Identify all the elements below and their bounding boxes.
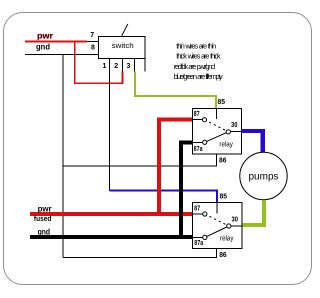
svg-text:thick wires are thick: thick wires are thick — [176, 52, 221, 61]
switch pin dividers 1-2-3 — [110, 59, 146, 72]
wire gnd branch to relay K2 pin 86 — [63, 249, 217, 258]
wire fill (thin green) switch pin 3 to relay K1 pin 85 — [135, 72, 216, 109]
svg-text:3: 3 — [126, 63, 130, 70]
svg-text:gnd: gnd — [36, 42, 50, 52]
svg-text:pwr: pwr — [37, 31, 54, 41]
svg-text:1: 1 — [102, 63, 106, 70]
note text — [174, 41, 223, 81]
relay K2 pin 87a stub — [193, 237, 205, 239]
relay K1 pin 85 stub (internal) — [216, 109, 218, 120]
wire pwr fused (thick red) — [30, 212, 193, 216]
switch lever — [122, 24, 128, 36]
relay K1 pin 30 stub — [228, 131, 241, 133]
svg-text:thin wires are thin: thin wires are thin — [176, 41, 216, 50]
svg-text:blue/green are fill/empty: blue/green are fill/empty — [174, 72, 223, 81]
svg-text:30: 30 — [232, 217, 239, 224]
wire gnd trunk down — [62, 55, 64, 258]
wire empty (thick green) relay K2 pin 30 to pumps — [242, 200, 264, 225]
svg-text:86: 86 — [219, 158, 227, 165]
svg-text:85: 85 — [218, 99, 226, 106]
svg-text:7: 7 — [90, 32, 94, 39]
svg-text:30: 30 — [231, 122, 238, 129]
wire gnd branch (thick black) to relay K1 pin 87a — [181, 142, 193, 239]
svg-text:fused: fused — [34, 214, 52, 223]
svg-text:red/blk are pwr/gnd: red/blk are pwr/gnd — [174, 62, 215, 71]
relay K1 coil dashed 87-30 — [205, 120, 229, 132]
wire gnd branch to relay K1 pin 86 — [63, 154, 217, 166]
svg-text:85: 85 — [220, 194, 228, 201]
relay K1 pin 87a stub — [193, 141, 205, 143]
relay K2 armature 30-87a — [205, 226, 229, 237]
wire pwr input to switch pin 7 — [25, 41, 99, 43]
svg-text:87a: 87a — [194, 146, 203, 153]
svg-text:pwr: pwr — [38, 205, 52, 214]
svg-text:pumps: pumps — [249, 172, 279, 183]
pump motor M1 — [240, 152, 287, 199]
wire switch pin 1 down — [109, 72, 111, 191]
relay K2 — [193, 203, 243, 249]
wire pwr branch to switch pin 2 — [75, 42, 123, 84]
svg-text:2: 2 — [114, 63, 118, 70]
svg-text:86: 86 — [219, 252, 227, 259]
svg-text:relay: relay — [219, 141, 233, 148]
wire gnd (thick black) — [30, 235, 193, 239]
svg-text:87: 87 — [194, 206, 200, 213]
svg-text:8: 8 — [91, 45, 95, 52]
relay K1 terminal 87 — [202, 118, 206, 122]
relay K2 coil dashed 87-30 — [205, 214, 229, 226]
svg-text:87: 87 — [194, 111, 200, 118]
relay K2 terminal 30 — [227, 224, 231, 228]
relay K1 — [193, 109, 242, 155]
relay K2 terminal 87 — [203, 212, 207, 216]
relay K1 terminal 30 — [226, 130, 230, 134]
relay K2 terminal 87a — [203, 235, 207, 239]
switch S1 — [99, 37, 146, 59]
relay K2 pin 30 stub — [229, 225, 242, 227]
svg-text:relay: relay — [220, 236, 234, 243]
relay K2 pin 85 stub (internal) — [216, 203, 218, 214]
wire fill (thick blue) relay K1 pin 30 to pumps — [242, 131, 263, 153]
wire gnd input to switch pin 8 — [25, 54, 99, 56]
wire pwr branch (thick red) to relay K1 pin 87 — [159, 120, 193, 216]
relay K1 pin 87 stub — [193, 119, 203, 121]
wire empty (thin blue) switch pin 1 to relay K2 pin 85 — [110, 191, 218, 203]
relay K1 armature 30-87a — [205, 132, 229, 143]
svg-text:switch: switch — [112, 41, 134, 50]
svg-text:87a: 87a — [194, 240, 203, 247]
relay K1 terminal 87a — [203, 140, 207, 144]
relay K2 pin 87 stub — [193, 213, 203, 215]
